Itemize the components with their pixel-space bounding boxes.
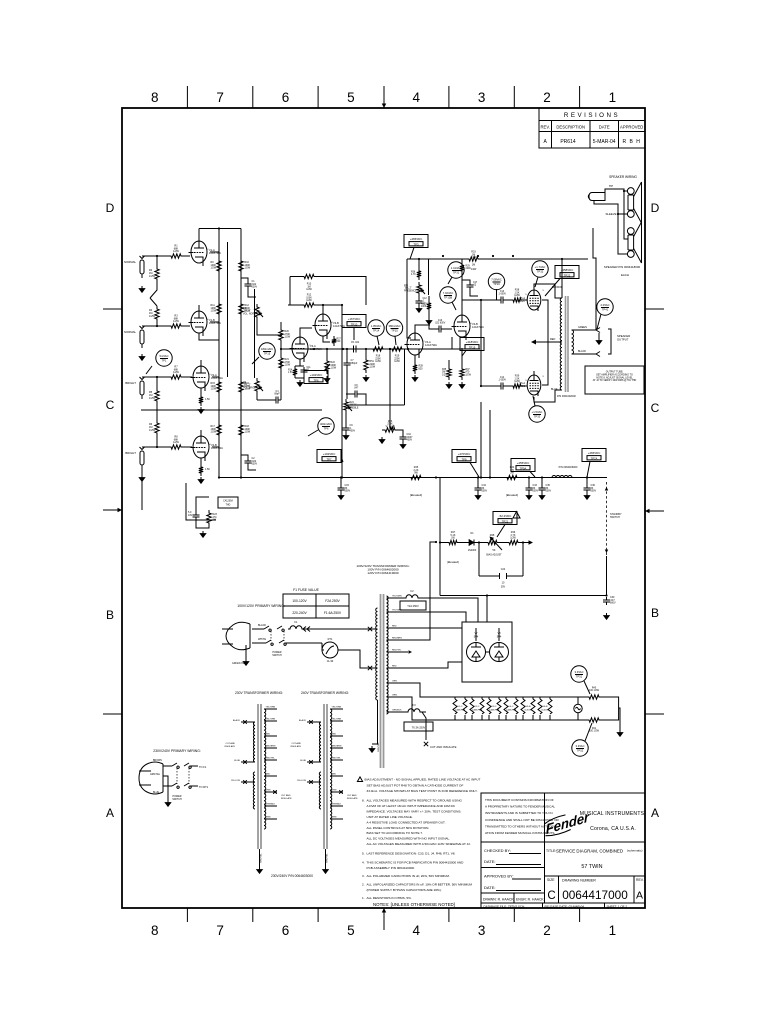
heater winding V3-C	[487, 697, 501, 720]
wire top tie line	[199, 228, 241, 230]
capacitor C7	[344, 360, 351, 368]
junction V3 out	[313, 348, 315, 350]
standby switch dashed wires	[606, 482, 608, 556]
wire interstage vertical A	[227, 242, 229, 377]
svg-text:CUT AND: CUT AND	[281, 794, 291, 797]
svg-text:DATE:: DATE:	[484, 859, 495, 864]
svg-text:INSULATE: INSULATE	[347, 797, 358, 800]
svg-text:5mVAC: 5mVAC	[159, 354, 168, 358]
svg-text:TP41: TP41	[602, 308, 609, 312]
junction top tie	[218, 227, 220, 229]
junction R32	[477, 255, 479, 257]
svg-text:TO RT1: TO RT1	[199, 785, 209, 789]
svg-text:SPEAKER WIRING: SPEAKER WIRING	[609, 175, 637, 179]
svg-text:GRN/YEL: GRN/YEL	[150, 774, 161, 776]
svg-text:BLUE: BLUE	[234, 760, 240, 762]
svg-text:V6-B: V6-B	[543, 706, 548, 708]
wire F3 out	[422, 711, 426, 713]
test point TP51	[571, 666, 590, 694]
wire C2 to vol	[248, 466, 256, 470]
ground plug chassis	[245, 659, 247, 662]
svg-text:230V/240V P/N 0064603000: 230V/240V P/N 0064603000	[271, 874, 313, 878]
wire screen feed 2 down	[489, 410, 491, 478]
capacitor C15 filter	[338, 485, 345, 493]
svg-text:RED/YEL: RED/YEL	[266, 758, 276, 760]
capacitor C33 filter	[526, 485, 533, 493]
capacitor C6	[193, 512, 200, 520]
junction	[489, 476, 491, 478]
svg-text:WHITE: WHITE	[258, 638, 266, 641]
svg-text:3.3VAC: 3.3VAC	[575, 744, 584, 748]
fuse F3	[406, 709, 422, 712]
splice black	[368, 627, 372, 631]
wire RT1 to T1	[338, 650, 374, 668]
svg-text:[Elevated]: [Elevated]	[506, 493, 518, 497]
resistor R6	[155, 420, 159, 436]
junction bass tap	[389, 348, 391, 350]
junction	[341, 304, 343, 306]
title block	[481, 793, 645, 908]
capacitor C34 filter	[475, 485, 482, 493]
svg-text:TP31: TP31	[453, 271, 460, 275]
svg-text:GRN/YEL: GRN/YEL	[327, 853, 329, 863]
capacitor C30	[603, 597, 610, 605]
wire C1 to vol	[248, 289, 256, 297]
svg-text:+418VDC: +418VDC	[466, 340, 479, 344]
ground R31	[428, 318, 430, 321]
svg-text:3.: 3.	[362, 874, 365, 878]
test point box TP7	[317, 450, 343, 463]
svg-text:57 TWIN: 57 TWIN	[581, 864, 602, 870]
svg-text:SERVICE DIAGRAM, COMBINED: SERVICE DIAGRAM, COMBINED	[556, 849, 623, 854]
rectifier tube V8 5U4GB	[490, 632, 509, 662]
resistor R14 cathode	[199, 464, 203, 476]
svg-text:33.0mA. VOLTAGE SHOWN AT BIAS: 33.0mA. VOLTAGE SHOWN AT BIAS TEST POINT…	[367, 789, 478, 793]
svg-text:TP51: TP51	[576, 675, 583, 679]
wire fb stub	[536, 341, 540, 343]
svg-text:GRN/YEL: GRN/YEL	[261, 853, 263, 863]
junction	[342, 348, 344, 350]
wire V4-B plate up	[462, 300, 481, 313]
svg-text:TP6: TP6	[314, 378, 319, 382]
svg-text:BLACK: BLACK	[578, 350, 587, 353]
test point TP41	[597, 299, 613, 329]
resistor R47 bias	[446, 540, 460, 544]
svg-text:+458VDC: +458VDC	[561, 268, 574, 272]
svg-text:GRN/BLK: GRN/BLK	[332, 804, 342, 806]
wire OT center tap	[540, 341, 562, 343]
svg-text:12AX7WA: 12AX7WA	[472, 709, 483, 712]
wire fb right	[317, 277, 366, 306]
svg-text:SPEAKER P/N 0064418000: SPEAKER P/N 0064418000	[604, 265, 641, 269]
resistor R37 tail	[460, 366, 464, 380]
wire R7 to V2-A grid	[184, 376, 192, 378]
fuse table F1	[283, 588, 349, 618]
ground jack J1	[141, 286, 143, 289]
wire to F1 label	[190, 765, 198, 767]
wire to C14	[481, 300, 498, 386]
svg-text:RED/YEL: RED/YEL	[392, 650, 402, 652]
resistor R29 tremolo	[460, 262, 464, 274]
svg-text:+470VDC: +470VDC	[458, 452, 471, 456]
wire tip to speaker 1	[624, 190, 628, 192]
wire bus to R51	[365, 349, 367, 357]
wire V1-A plate up	[198, 229, 200, 242]
ground C9	[345, 433, 347, 436]
svg-text:TP6: TP6	[324, 427, 329, 431]
transformer wiring diagram 230V	[224, 691, 292, 874]
svg-text:7.02VAC: 7.02VAC	[443, 291, 454, 295]
wire V1-B plate tap	[210, 321, 219, 323]
wire V2-A cathode	[200, 388, 202, 394]
svg-text:CA1205A: CA1205A	[223, 500, 233, 503]
junction	[586, 476, 588, 478]
svg-text:YEL/GRN: YEL/GRN	[332, 707, 342, 709]
label box SJ201CA	[218, 497, 238, 508]
junction	[156, 255, 158, 257]
ground euro plug	[167, 800, 169, 803]
wire C10 to V4-B grid	[429, 325, 452, 329]
svg-text:100V/120V PRIMARY WIRING:: 100V/120V PRIMARY WIRING:	[237, 604, 285, 608]
svg-text:CL-90: CL-90	[327, 660, 334, 663]
svg-text:RED/YEL: RED/YEL	[332, 758, 342, 760]
resistor R3	[168, 324, 184, 328]
svg-text:3.3VAC: 3.3VAC	[574, 670, 583, 674]
svg-text:V1-C: V1-C	[458, 706, 463, 708]
svg-text:T6.3A 250V: T6.3A 250V	[412, 726, 426, 730]
wire vol normal out	[257, 320, 281, 335]
ground lower left	[202, 531, 204, 534]
svg-text:+102VDC: +102VDC	[323, 452, 336, 456]
svg-text:GRN/YEL: GRN/YEL	[378, 742, 380, 752]
ground heater center	[619, 730, 621, 733]
diode CR3	[466, 540, 477, 546]
ground V2-B cathode	[200, 477, 202, 480]
wire to R5	[156, 377, 158, 388]
resistor R35 grid leak	[447, 366, 451, 380]
top center alignment arrow	[383, 86, 385, 108]
svg-text:+465VDC: +465VDC	[588, 451, 601, 455]
svg-text:CUT AND INSULATE: CUT AND INSULATE	[430, 745, 457, 749]
ground R35	[448, 382, 450, 385]
wire B+ bus thin	[542, 477, 607, 479]
resistor R44 elevated	[504, 475, 520, 479]
wire R8 to V2-B grid	[184, 446, 192, 448]
wire treble to C9	[345, 413, 347, 425]
wire sleeve branch speaker1	[618, 213, 628, 215]
wire B+ upper bus	[407, 258, 466, 260]
wire bus to C7	[346, 349, 348, 360]
heater winding V4-C	[504, 697, 518, 720]
resistor R11 plate	[217, 301, 221, 317]
speaker output terminal	[596, 328, 600, 357]
output transformer T2 core	[566, 296, 569, 392]
right border zone ticks	[645, 309, 664, 714]
heater winding V2-C	[470, 697, 484, 720]
connector marks	[303, 627, 310, 632]
svg-text:TP21: TP21	[502, 519, 509, 523]
svg-text:BRIGHT: BRIGHT	[125, 451, 136, 455]
svg-text:RED: RED	[266, 734, 271, 736]
wire C8 link	[346, 394, 366, 405]
wire fb left	[290, 276, 301, 278]
svg-text:ALL VOLTAGES MEASURED WITH RES: ALL VOLTAGES MEASURED WITH RESPECT TO GR…	[367, 799, 463, 803]
resistor R16 plate	[239, 379, 243, 395]
ground V3-A cathode	[299, 380, 301, 383]
wire speaker output	[572, 330, 597, 354]
resistor R12	[301, 303, 317, 307]
wire R23 C6	[196, 497, 209, 528]
resistor R22	[325, 358, 329, 374]
ground bass	[381, 437, 383, 440]
wire R1 to V1-A grid	[184, 255, 190, 257]
svg-text:TP15: TP15	[391, 329, 398, 333]
potentiometer R24 treble	[344, 399, 348, 413]
junction loop right	[522, 541, 524, 543]
svg-text:F1 FUSE VALUE: F1 FUSE VALUE	[293, 588, 319, 592]
rectifier tube V7 5U4GB	[467, 632, 486, 662]
wire V2-B cathode	[200, 458, 202, 464]
test point box TP6	[304, 364, 330, 384]
wire B+ rail left	[218, 229, 220, 478]
wire V1-A plate to rail	[210, 251, 219, 253]
svg-text:YELLOW: YELLOW	[231, 780, 241, 782]
wire	[402, 628, 462, 668]
ground C30	[606, 613, 608, 616]
svg-text:CUT AND: CUT AND	[291, 742, 301, 745]
svg-text:BIAS ADJUSTMENT - NO SIGNAL: BIAS ADJUSTMENT - NO SIGNAL APPLIED, RAT…	[365, 778, 481, 782]
wire tone mid line	[346, 349, 405, 405]
junction	[156, 446, 158, 448]
resistor R4	[155, 306, 159, 322]
svg-text:ALL RESISTORS IN OHMS, 5%.: ALL RESISTORS IN OHMS, 5%.	[367, 896, 412, 900]
svg-text:DRAWN: R. HAACK: DRAWN: R. HAACK	[483, 898, 514, 902]
resistor R13 cathode	[199, 394, 203, 406]
svg-text:GRN: GRN	[392, 681, 397, 683]
line switch contacts white	[266, 640, 286, 645]
wire jack4 ground drop	[141, 465, 143, 510]
potentiometer R30 presence	[417, 282, 421, 296]
wire B+ upper bus thin	[481, 258, 588, 260]
ground R37	[461, 382, 463, 385]
capacitor C10 coupling	[436, 326, 444, 333]
wire bias line start	[440, 542, 446, 544]
svg-text:YEL/GRN: YEL/GRN	[392, 596, 402, 598]
svg-text:6L6GC: 6L6GC	[525, 710, 532, 712]
speaker output bracket	[608, 329, 611, 354]
svg-text:YEL/GRN: YEL/GRN	[266, 707, 276, 709]
wire bus to C35	[541, 478, 543, 486]
top border zone ticks	[187, 86, 579, 108]
svg-text:RED/BRN: RED/BRN	[332, 746, 342, 748]
capacitor C24	[500, 573, 507, 579]
svg-text:400mVAC: 400mVAC	[320, 422, 332, 426]
wire ground rail	[141, 409, 322, 411]
svg-text:RED: RED	[332, 734, 337, 736]
svg-text:P/N 0064402000: P/N 0064402000	[557, 395, 576, 398]
svg-text:ALL DC VOLTAGES MEASURED WITH: ALL DC VOLTAGES MEASURED WITH NO INPUT S…	[367, 837, 451, 841]
svg-text:RED: RED	[550, 338, 555, 341]
svg-text:NORMAL: NORMAL	[124, 260, 136, 264]
resistor R1	[168, 254, 184, 258]
svg-text:DATE:: DATE:	[484, 885, 495, 890]
svg-text:SHEET: 1 OF 2: SHEET: 1 OF 2	[607, 904, 628, 908]
test point TP15	[252, 343, 275, 364]
resistor R39 grid	[510, 384, 524, 388]
svg-text:GRN: GRN	[392, 695, 397, 697]
resistor R20 mix	[279, 327, 283, 343]
ground R22	[326, 376, 328, 379]
junction	[561, 258, 563, 260]
resistor R17 plate	[217, 422, 221, 438]
wire	[163, 776, 168, 800]
svg-text:A: A	[636, 890, 643, 902]
wire lower left loop	[186, 483, 216, 520]
test point TP52	[572, 723, 592, 756]
output transformer T2 primary	[560, 298, 562, 390]
ground speaker return	[598, 338, 600, 341]
wire bus to C15	[340, 478, 342, 486]
speaker LS2	[627, 222, 641, 263]
svg-text:TP7: TP7	[327, 457, 332, 461]
wire standby lower	[606, 556, 608, 596]
svg-text:TP15: TP15	[264, 352, 271, 356]
wire V2-A plate tap	[212, 376, 219, 378]
wire R47 to CR3	[460, 542, 466, 544]
wire V3-B cathode	[323, 336, 330, 342]
output tube note box	[585, 366, 644, 394]
wire C4 to mix	[280, 363, 282, 400]
potentiometer R7A volume normal	[255, 304, 259, 320]
resistor R36 presence feed	[417, 268, 421, 280]
junction B+ line	[605, 594, 607, 596]
svg-text:RED/BRN: RED/BRN	[266, 746, 276, 748]
ground R51	[365, 375, 367, 378]
svg-text:GRN: GRN	[332, 790, 337, 792]
wire V3-A cathode	[299, 359, 301, 366]
junction R33	[492, 255, 494, 257]
wire V4-A plate to R31	[415, 296, 429, 333]
svg-text:V5-B: V5-B	[526, 706, 531, 708]
wire R4 to J2	[156, 322, 158, 326]
junction rail left bus	[218, 476, 220, 478]
wire V3-A plate	[300, 328, 312, 337]
wire euro blue	[163, 785, 172, 787]
bias out arrow	[529, 540, 534, 545]
notes text block	[357, 777, 480, 900]
svg-text:(POWER SUPPLY BYPASS CAPACITOR: (POWER SUPPLY BYPASS CAPACITORS ARE 20%)…	[367, 888, 442, 892]
junction bias bus	[435, 476, 437, 478]
wire screens	[542, 300, 548, 385]
wire V3-B plate	[322, 305, 324, 314]
wire B+ rail right	[240, 229, 242, 478]
resistor R23	[207, 510, 211, 526]
svg-text:GRN: GRN	[266, 817, 271, 819]
wire bus drop tremolo	[461, 259, 463, 262]
test point box TP10	[342, 315, 366, 341]
svg-text:A 4 RESISTIVE LOAD CONNECTED: A 4 RESISTIVE LOAD CONNECTED AT SPEAKER …	[367, 821, 446, 825]
test point box TP9A	[511, 459, 535, 478]
svg-text:TP16: TP16	[493, 282, 500, 286]
svg-text:+465VDC: +465VDC	[410, 237, 423, 241]
wire to bass	[389, 349, 391, 425]
junction feed bus	[341, 476, 343, 478]
capacitor C9	[343, 425, 350, 433]
svg-text:1.5K: 1.5K	[205, 468, 210, 471]
junction	[240, 476, 242, 478]
svg-text:RED: RED	[332, 774, 337, 776]
svg-text:ALL AC VOLTAGES MEASURED WITH: ALL AC VOLTAGES MEASURED WITH A 50mVAC 1…	[367, 842, 471, 846]
wire heater rails thin	[556, 697, 586, 720]
svg-text:8.: 8.	[362, 799, 365, 803]
wire rail to R6	[156, 410, 158, 420]
wire center bus	[281, 348, 480, 350]
svg-text:230V/240V PRIMARY WIRING:: 230V/240V PRIMARY WIRING:	[153, 749, 201, 753]
svg-text:TITLE:: TITLE:	[546, 849, 556, 853]
capacitor C12	[416, 298, 423, 306]
svg-text:BLUE: BLUE	[153, 792, 159, 794]
svg-text:1.5K: 1.5K	[205, 398, 210, 401]
ground C35	[541, 493, 543, 496]
wire V4-A cathode	[414, 355, 416, 362]
wire OT center tap to B+	[561, 259, 563, 298]
wire V2-B plate tap	[212, 446, 219, 448]
triode V2-A	[191, 360, 224, 391]
svg-text:7.08VAC: 7.08VAC	[491, 278, 502, 282]
junction	[528, 476, 530, 478]
speaker LS1	[627, 182, 641, 223]
speaker jack plug P1	[588, 193, 605, 205]
test point TP14	[368, 320, 384, 345]
AC plug P2 120V	[222, 622, 250, 650]
svg-text:THIS SCHEMATIC IS FOR PCB FABR: THIS SCHEMATIC IS FOR PCB FABRICATION P/…	[367, 861, 465, 865]
wire C7 to treble	[346, 368, 348, 399]
ground C10	[402, 442, 404, 445]
resistor R46	[506, 540, 521, 544]
svg-text:BROWN: BROWN	[153, 760, 162, 762]
svg-text:INSULATE: INSULATE	[281, 797, 292, 800]
junction	[346, 348, 348, 350]
svg-text:1.: 1.	[362, 896, 365, 900]
wire bus to R22	[326, 349, 328, 358]
svg-text:THD: THD	[226, 505, 231, 507]
test point TP1	[146, 350, 172, 374]
junction	[541, 476, 543, 478]
resistor R41 hum	[586, 718, 602, 722]
test point box TP19	[460, 338, 484, 357]
svg-text:NOTES: [UNLESS OTHERWISE NOTE: NOTES: [UNLESS OTHERWISE NOTED]	[373, 902, 455, 907]
junction	[389, 348, 391, 350]
triode V4-B	[452, 309, 485, 340]
wire vertical feed x343	[341, 305, 343, 478]
rectifier box	[462, 622, 512, 682]
resistor R2	[155, 266, 159, 282]
wire heater ground drop	[619, 708, 620, 730]
svg-text:NORMAL: NORMAL	[124, 330, 136, 334]
svg-text:REVISIONS: REVISIONS	[564, 112, 620, 119]
svg-text:12AX7WA: 12AX7WA	[455, 709, 466, 712]
potentiometer R48 bias adjust	[485, 540, 500, 544]
wire V1-B cathode	[199, 333, 219, 340]
svg-text:35V: 35V	[501, 586, 506, 589]
svg-text:2.: 2.	[362, 883, 365, 887]
wire bus to V4-A	[406, 348, 408, 350]
resistor R40 hum	[586, 695, 602, 699]
svg-text:TP15B: TP15B	[444, 296, 452, 300]
wire R3 to V1-B grid	[184, 325, 190, 327]
test point TP32	[532, 261, 548, 287]
wire B+ main bus	[219, 477, 542, 479]
